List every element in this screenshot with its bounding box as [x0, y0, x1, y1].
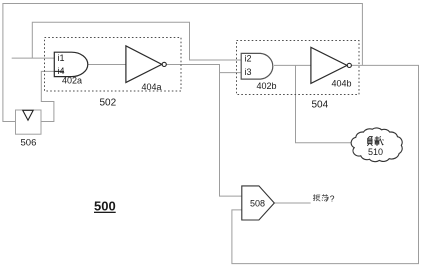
svg-text:502: 502 — [100, 98, 117, 109]
svg-text:508: 508 — [250, 198, 265, 208]
svg-text:506: 506 — [21, 138, 37, 149]
wire input stub to i1 — [12, 57, 55, 59]
inverter 404b triangle — [311, 47, 347, 83]
svg-text:402b: 402b — [257, 81, 277, 91]
wire branch down to load cloud 510 — [296, 65, 351, 142]
svg-text:i3: i3 — [245, 67, 252, 77]
dashed box 502 — [45, 38, 182, 92]
wire buffer 506 output to gate 402a input i4 — [41, 71, 64, 121]
svg-text:i1: i1 — [58, 53, 65, 63]
wire comparator 508 output — [274, 202, 310, 204]
buffer 506 triangle — [23, 110, 34, 120]
dashed box 504 — [237, 41, 360, 95]
label 振荡? (oscillate?) drawn as strokes — [313, 194, 328, 201]
inverter 404a triangle — [126, 46, 162, 83]
svg-text:404a: 404a — [142, 82, 162, 92]
wire gate 402b output to inverter 404b input — [274, 64, 311, 66]
load cloud 510 — [351, 128, 402, 162]
wire branch to gate 402b input i3 — [220, 72, 242, 74]
wire inverter 404a output down to comparator 508 top input — [166, 65, 242, 197]
label 负载 (load) drawn as strokes — [367, 136, 383, 146]
svg-text:i4: i4 — [58, 66, 65, 76]
svg-text:504: 504 — [312, 100, 329, 111]
comparator pentagon 508 — [242, 186, 274, 220]
wire gate 402a output to inverter 404a input — [88, 64, 126, 66]
wire inverter 404b output right and down to comparator 508 bottom input — [232, 65, 419, 263]
svg-text:?: ? — [330, 193, 335, 203]
buffer box 506 — [16, 110, 42, 134]
inverter 404a bubble — [162, 62, 166, 66]
svg-text:500: 500 — [94, 199, 116, 214]
svg-text:404b: 404b — [332, 79, 352, 89]
inverter 404b bubble — [347, 63, 351, 67]
svg-text:510: 510 — [368, 147, 383, 157]
AND gate 402a — [54, 52, 87, 76]
wire top feedback from U404b output to buffer 506 input — [3, 4, 363, 122]
svg-text:i2: i2 — [245, 53, 252, 63]
pin stub i4 — [54, 70, 64, 72]
AND gate 402b — [241, 53, 273, 79]
svg-text:402a: 402a — [62, 76, 82, 86]
wire node i1 feedback to gate 402b input i2 — [32, 22, 241, 60]
